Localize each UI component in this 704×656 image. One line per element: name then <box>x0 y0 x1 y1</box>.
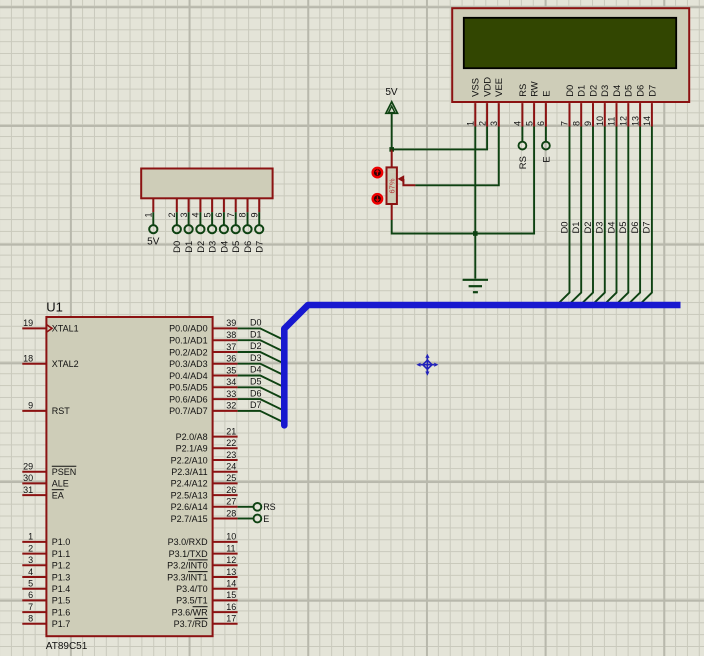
pin 28 P2.7/A15 stub <box>214 518 238 520</box>
svg-text:U1: U1 <box>46 300 63 315</box>
wire P0.5 D5 to bus <box>238 387 285 399</box>
svg-text:P2.3/A11: P2.3/A11 <box>171 467 207 477</box>
svg-text:7: 7 <box>226 212 236 217</box>
wire P0.3 D3 to bus <box>238 364 285 376</box>
svg-text:39: 39 <box>226 318 236 328</box>
pin 6 P1.5 stub <box>22 599 45 601</box>
svg-text:P0.7/AD7: P0.7/AD7 <box>169 406 208 416</box>
LCD pin 10 stub <box>604 103 606 126</box>
svg-text:5V: 5V <box>385 87 398 98</box>
svg-text:RS: RS <box>263 502 276 512</box>
overline on PSEN <box>52 465 77 467</box>
overline on INT0 <box>188 559 208 561</box>
svg-text:D4: D4 <box>250 365 262 375</box>
svg-text:VSS: VSS <box>470 78 481 97</box>
clock input arrow on XTAL1 <box>47 325 52 332</box>
overline on INT1 <box>188 571 208 573</box>
svg-text:P3.5/T1: P3.5/T1 <box>176 596 208 606</box>
connector pin 8 stub <box>247 198 249 212</box>
svg-text:2: 2 <box>477 121 487 126</box>
pin 25 P2.4/A12 stub <box>214 482 238 484</box>
svg-text:D2: D2 <box>250 341 262 351</box>
svg-text:12: 12 <box>619 116 629 126</box>
connector terminal D1 <box>185 225 193 233</box>
svg-text:VEE: VEE <box>493 78 504 97</box>
svg-text:8: 8 <box>28 614 33 624</box>
pin 38 P0.1/AD1 stub <box>214 339 238 341</box>
LCD pin 9 stub <box>592 103 594 126</box>
pin 39 P0.0/AD0 stub <box>214 327 238 329</box>
svg-text:17: 17 <box>226 614 236 624</box>
svg-text:D5: D5 <box>617 222 628 234</box>
connector pin 1 stub <box>152 198 154 212</box>
svg-text:67%: 67% <box>388 178 397 193</box>
svg-text:P0.5/AD5: P0.5/AD5 <box>169 383 208 393</box>
LCD display LCD1 body <box>452 8 689 102</box>
pin 4 P1.3 stub <box>22 576 45 578</box>
svg-text:P3.4/T0: P3.4/T0 <box>176 584 208 594</box>
svg-text:D1: D1 <box>250 329 262 339</box>
wire P2.6 to RS terminal <box>238 506 254 508</box>
svg-text:P3.3/INT1: P3.3/INT1 <box>167 572 208 582</box>
svg-text:26: 26 <box>226 485 236 495</box>
pin 29 PSEN stub <box>22 471 45 473</box>
svg-text:D1: D1 <box>183 241 194 253</box>
LCD pin 6 stub <box>545 103 547 126</box>
svg-text:27: 27 <box>226 497 236 507</box>
svg-text:25: 25 <box>226 473 236 483</box>
svg-text:P0.6/AD6: P0.6/AD6 <box>169 394 208 404</box>
wire VDD pin2 to 5V junction <box>392 127 487 150</box>
svg-text:34: 34 <box>226 377 236 387</box>
svg-text:1: 1 <box>28 532 33 542</box>
svg-text:P2.1/A9: P2.1/A9 <box>176 444 208 454</box>
pin 11 P3.1/TXD stub <box>214 553 238 555</box>
wire P0.1 D1 to bus <box>238 340 285 352</box>
ground symbol <box>463 279 488 281</box>
connector terminal D3 <box>208 225 216 233</box>
wire 5V to junction <box>391 113 393 149</box>
svg-text:2: 2 <box>167 212 177 217</box>
svg-text:14: 14 <box>226 579 236 589</box>
svg-text:RW: RW <box>529 81 540 97</box>
connector pin 6 stub <box>223 198 225 212</box>
LCD pin 13 stub <box>639 103 641 126</box>
svg-text:D5: D5 <box>250 377 262 387</box>
connector pin 5 stub <box>211 198 213 212</box>
svg-text:D3: D3 <box>599 85 610 97</box>
wire LCD D5 to bus <box>617 127 629 304</box>
pot RV1 up button <box>373 168 382 177</box>
svg-text:8: 8 <box>571 121 581 126</box>
svg-text:ALE: ALE <box>52 479 69 489</box>
svg-text:D2: D2 <box>587 85 598 97</box>
terminal RS at MCU <box>254 503 262 511</box>
pin 30 ALE stub <box>22 482 45 484</box>
svg-text:6: 6 <box>28 590 33 600</box>
svg-text:D5: D5 <box>230 241 241 253</box>
connector pin 3 stub <box>188 198 190 212</box>
svg-text:P1.2: P1.2 <box>52 561 71 571</box>
svg-text:38: 38 <box>226 330 236 340</box>
svg-text:14: 14 <box>642 116 652 126</box>
wire P0.4 D4 to bus <box>238 376 285 388</box>
pin 9 RST stub <box>22 410 45 412</box>
svg-text:D6: D6 <box>635 85 646 97</box>
svg-text:33: 33 <box>226 389 236 399</box>
svg-text:4: 4 <box>191 212 201 217</box>
pin 16 P3.6/WR stub <box>214 611 238 613</box>
pin 23 P2.2/A10 stub <box>214 459 238 461</box>
pin 3 P1.2 stub <box>22 564 45 566</box>
LCD pin 3 stub <box>498 103 500 126</box>
svg-text:P2.0/A8: P2.0/A8 <box>176 432 208 442</box>
svg-text:3: 3 <box>179 212 189 217</box>
svg-text:10: 10 <box>226 532 236 542</box>
svg-text:P2.2/A10: P2.2/A10 <box>171 455 208 465</box>
pin 26 P2.5/A13 stub <box>214 494 238 496</box>
connector terminal D0 <box>173 225 181 233</box>
pin 34 P0.5/AD5 stub <box>214 386 238 388</box>
svg-text:D6: D6 <box>629 222 640 234</box>
pot RV1 top stub <box>391 149 393 167</box>
LCD pin 2 stub <box>486 103 488 126</box>
origin marker crosshair <box>421 358 435 372</box>
svg-text:1: 1 <box>466 121 476 126</box>
svg-text:VDD: VDD <box>482 77 493 97</box>
junction node at 5V/VDD/pot <box>389 147 394 152</box>
svg-text:PSEN: PSEN <box>52 467 77 477</box>
svg-text:35: 35 <box>226 365 236 375</box>
svg-text:D0: D0 <box>171 241 182 253</box>
svg-text:D3: D3 <box>250 353 262 363</box>
overline on EA <box>52 489 64 491</box>
svg-text:P0.4/AD4: P0.4/AD4 <box>169 371 208 381</box>
svg-text:13: 13 <box>226 567 236 577</box>
svg-text:30: 30 <box>23 473 33 483</box>
svg-text:36: 36 <box>226 354 236 364</box>
connector terminal D7 <box>255 225 263 233</box>
svg-text:P3.7/RD: P3.7/RD <box>174 619 209 629</box>
svg-text:18: 18 <box>23 354 33 364</box>
wire LCD D1 to bus <box>570 127 582 304</box>
svg-text:5: 5 <box>524 121 534 126</box>
wire RS pin4 to terminal <box>521 127 523 142</box>
overline on WR <box>193 606 208 608</box>
terminal E at MCU <box>254 515 262 523</box>
svg-text:2: 2 <box>28 543 33 553</box>
svg-text:D4: D4 <box>218 241 229 253</box>
wire P0.7 D7 to bus <box>238 411 285 423</box>
svg-text:P1.4: P1.4 <box>52 584 71 594</box>
svg-text:D7: D7 <box>250 400 262 410</box>
pot RV1 bottom stub <box>391 204 393 220</box>
pot RV1 wiper arrow <box>398 175 405 182</box>
svg-text:EA: EA <box>52 490 64 500</box>
svg-text:16: 16 <box>226 602 236 612</box>
svg-text:P0.0/AD0: P0.0/AD0 <box>169 324 208 334</box>
LCD pin 5 stub <box>533 103 535 126</box>
svg-text:RS: RS <box>517 84 528 97</box>
svg-text:3: 3 <box>28 555 33 565</box>
wire LCD D7 to bus <box>640 127 652 304</box>
svg-text:21: 21 <box>226 426 236 436</box>
pin 1 P1.0 stub <box>22 541 45 543</box>
svg-text:P0.2/AD2: P0.2/AD2 <box>169 347 208 357</box>
svg-text:P2.7/A15: P2.7/A15 <box>171 514 208 524</box>
svg-text:9: 9 <box>583 121 593 126</box>
LCD pin 7 stub <box>569 103 571 126</box>
junction node VSS/ground line <box>473 231 478 236</box>
connector pin 7 stub <box>235 198 237 212</box>
svg-text:4: 4 <box>28 567 33 577</box>
svg-text:23: 23 <box>226 450 236 460</box>
svg-text:P2.4/A12: P2.4/A12 <box>171 479 208 489</box>
wire P0.0 D0 to bus <box>238 328 285 340</box>
svg-text:RS: RS <box>517 156 528 169</box>
pin 10 P3.0/RXD stub <box>214 541 238 543</box>
connector pin 2 stub <box>176 198 178 212</box>
terminal RS <box>519 142 527 150</box>
svg-text:P1.6: P1.6 <box>52 607 71 617</box>
svg-text:D3: D3 <box>207 241 218 253</box>
pot RV1 body <box>387 167 397 204</box>
connector J1 body <box>141 169 272 199</box>
pin 31 EA stub <box>22 494 45 496</box>
svg-text:D6: D6 <box>250 388 262 398</box>
svg-text:32: 32 <box>226 401 236 411</box>
svg-text:9: 9 <box>249 212 259 217</box>
svg-text:RST: RST <box>52 406 71 416</box>
svg-text:D3: D3 <box>594 222 605 234</box>
svg-text:24: 24 <box>226 462 236 472</box>
svg-text:P0.3/AD3: P0.3/AD3 <box>169 359 208 369</box>
connector terminal 5V <box>149 225 157 233</box>
pin 2 P1.1 stub <box>22 553 45 555</box>
connector pin 9 stub <box>258 198 260 212</box>
svg-text:22: 22 <box>226 438 236 448</box>
wire LCD D3 to bus <box>593 127 605 304</box>
terminal E <box>542 142 550 150</box>
svg-text:P0.1/AD1: P0.1/AD1 <box>169 336 208 346</box>
wire LCD D6 to bus <box>629 127 641 304</box>
pin 12 P3.2/INT0 stub <box>214 564 238 566</box>
IC U1 AT89C51 body <box>46 317 212 636</box>
svg-text:15: 15 <box>226 590 236 600</box>
svg-text:9: 9 <box>28 401 33 411</box>
svg-text:D1: D1 <box>570 222 581 234</box>
LCD pin 14 stub <box>651 103 653 126</box>
svg-text:7: 7 <box>560 121 570 126</box>
pin 32 P0.7/AD7 stub <box>214 410 238 412</box>
pin 8 P1.7 stub <box>22 623 45 625</box>
svg-text:12: 12 <box>226 555 236 565</box>
svg-text:37: 37 <box>226 342 236 352</box>
svg-text:P3.0/RXD: P3.0/RXD <box>168 537 209 547</box>
wire pot bottom to RW pin5 <box>392 127 534 234</box>
svg-text:D4: D4 <box>605 222 616 234</box>
svg-text:P1.1: P1.1 <box>52 549 71 559</box>
pin 13 P3.3/INT1 stub <box>214 576 238 578</box>
wire E pin6 to terminal <box>545 127 547 142</box>
connector terminal D4 <box>220 225 228 233</box>
svg-text:XTAL2: XTAL2 <box>52 359 79 369</box>
svg-text:6: 6 <box>214 212 224 217</box>
svg-text:D7: D7 <box>641 222 652 234</box>
svg-text:11: 11 <box>226 543 235 553</box>
svg-text:5: 5 <box>28 579 33 589</box>
pin 15 P3.5/T1 stub <box>214 599 238 601</box>
wire VEE pin3 to pot wiper <box>415 127 498 186</box>
pin 27 P2.6/A14 stub <box>214 506 238 508</box>
pin 18 XTAL2 stub <box>22 363 45 365</box>
svg-text:P3.2/INT0: P3.2/INT0 <box>167 561 208 571</box>
svg-text:AT89C51: AT89C51 <box>46 641 88 652</box>
pin 22 P2.1/A9 stub <box>214 447 238 449</box>
bus wire <box>284 305 680 425</box>
svg-text:7: 7 <box>28 602 33 612</box>
svg-text:D0: D0 <box>558 222 569 234</box>
svg-text:1: 1 <box>144 212 154 217</box>
svg-text:4: 4 <box>513 121 523 126</box>
LCD pin 4 stub <box>521 103 523 126</box>
svg-text:13: 13 <box>630 116 640 126</box>
pot RV1 down button <box>373 194 382 203</box>
svg-text:D1: D1 <box>576 85 587 97</box>
connector pin 4 stub <box>199 198 201 212</box>
svg-text:P1.0: P1.0 <box>52 537 71 547</box>
connector terminal D2 <box>196 225 204 233</box>
wire LCD D4 to bus <box>605 127 617 304</box>
LCD pin 1 stub <box>474 103 476 126</box>
svg-text:D4: D4 <box>611 85 622 97</box>
svg-text:P1.5: P1.5 <box>52 596 71 606</box>
connector terminal D6 <box>243 225 251 233</box>
pin 14 P3.4/T0 stub <box>214 588 238 590</box>
LCD pin 11 stub <box>616 103 618 126</box>
svg-text:19: 19 <box>23 318 33 328</box>
svg-text:10: 10 <box>595 116 605 126</box>
svg-text:D7: D7 <box>646 85 657 97</box>
pin 24 P2.3/A11 stub <box>214 471 238 473</box>
svg-text:D0: D0 <box>250 318 262 328</box>
svg-text:P1.7: P1.7 <box>52 619 71 629</box>
svg-text:P2.5/A13: P2.5/A13 <box>171 490 208 500</box>
svg-text:E: E <box>540 91 551 97</box>
svg-text:5V: 5V <box>147 237 160 248</box>
svg-text:D6: D6 <box>242 241 253 253</box>
svg-text:3: 3 <box>489 121 499 126</box>
svg-text:D0: D0 <box>564 85 575 97</box>
pin 21 P2.0/A8 stub <box>214 436 238 438</box>
connector terminal D5 <box>232 225 240 233</box>
svg-text:29: 29 <box>23 462 33 472</box>
pin 19 XTAL1 stub <box>22 327 45 329</box>
svg-text:P3.6/WR: P3.6/WR <box>172 607 209 617</box>
svg-text:E: E <box>540 156 551 162</box>
overline on RD <box>195 617 208 619</box>
svg-text:P3.1/TXD: P3.1/TXD <box>169 549 209 559</box>
LCD pin 8 stub <box>580 103 582 126</box>
pin 5 P1.4 stub <box>22 588 45 590</box>
svg-text:31: 31 <box>23 485 33 495</box>
wire P0.6 D6 to bus <box>238 399 285 411</box>
svg-text:XTAL1: XTAL1 <box>52 324 79 334</box>
LCD screen <box>464 18 676 68</box>
svg-text:P2.6/A14: P2.6/A14 <box>171 502 208 512</box>
svg-text:D5: D5 <box>623 85 634 97</box>
pin 17 P3.7/RD stub <box>214 623 238 625</box>
pin 33 P0.6/AD6 stub <box>214 398 238 400</box>
pin 7 P1.6 stub <box>22 611 45 613</box>
svg-text:E: E <box>263 514 269 524</box>
pin 36 P0.3/AD3 stub <box>214 363 238 365</box>
svg-text:28: 28 <box>226 508 236 518</box>
wire P0.2 D2 to bus <box>238 352 285 364</box>
svg-text:P1.3: P1.3 <box>52 572 71 582</box>
svg-text:D7: D7 <box>254 241 265 253</box>
svg-text:11: 11 <box>607 117 617 126</box>
svg-text:8: 8 <box>238 212 248 217</box>
svg-text:5: 5 <box>202 212 212 217</box>
svg-text:D2: D2 <box>195 241 206 253</box>
pin 37 P0.2/AD2 stub <box>214 351 238 353</box>
wire LCD D2 to bus <box>581 127 593 304</box>
LCD pin 12 stub <box>627 103 629 126</box>
svg-text:D2: D2 <box>582 222 593 234</box>
pin 35 P0.4/AD4 stub <box>214 375 238 377</box>
power symbol 5V <box>386 102 398 114</box>
wire LCD D0 to bus <box>558 127 570 304</box>
wire VSS pin1 to ground <box>474 127 476 279</box>
svg-text:6: 6 <box>536 121 546 126</box>
wire P2.7 to E terminal <box>238 518 254 520</box>
